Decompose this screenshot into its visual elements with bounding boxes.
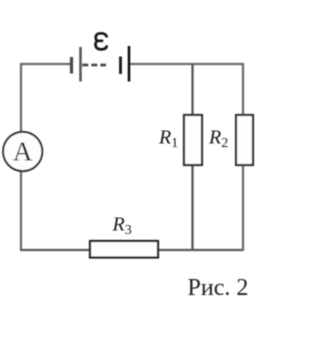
battery cell 2 short plate [119,57,122,75]
battery cell 1 long plate [79,47,82,82]
wire bottom horizontal right (R3 to bottom-right corner) [158,249,243,251]
ammeter A1 circle [3,132,42,171]
wire bottom horizontal left (corner to R3) [20,249,90,251]
wire left vertical lower (ammeter to bottom wire) [20,171,22,250]
wire right vertical upper (top-right corner to R2) [242,63,244,115]
svg-text:Рис. 2: Рис. 2 [188,275,249,301]
wire R1 branch lower (R1 down to bottom wire) [191,165,193,250]
wire right vertical lower (R2 to bottom-right corner) [242,165,244,251]
wire top-left horizontal (left corner to battery) [21,63,70,65]
resistor R2 body [236,115,253,165]
EMF label epsilon [96,33,107,49]
wire R1 branch upper (top wire junction down to R1) [191,64,193,115]
battery cell 1 short plate [70,57,73,74]
resistor R3 body [90,241,158,258]
battery cell 2 long plate [128,46,131,82]
battery dashed omission line [82,64,106,67]
resistor R1 body [184,115,202,165]
wire left vertical upper (corner to ammeter) [20,63,22,132]
svg-text:A: A [13,136,33,166]
wire top horizontal right (battery to top-right corner) [130,63,243,65]
